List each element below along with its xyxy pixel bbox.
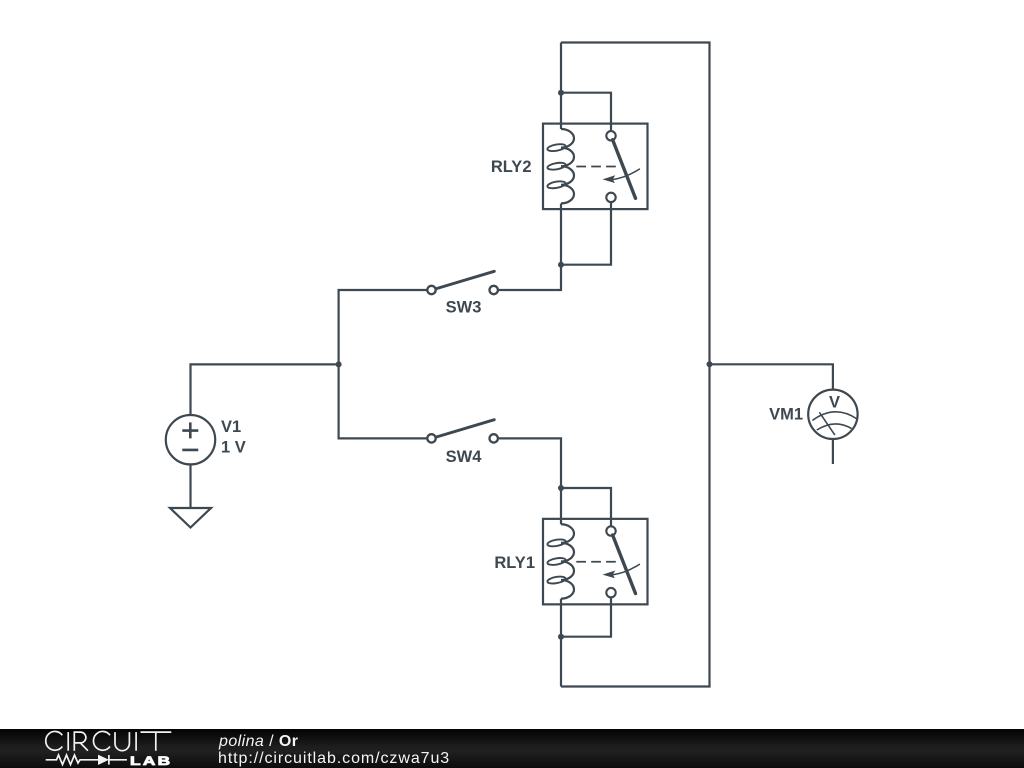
- svg-text:VM1: VM1: [769, 406, 803, 424]
- svg-text:LAB: LAB: [130, 756, 172, 768]
- svg-text:SW4: SW4: [446, 448, 483, 466]
- svg-text:1 V: 1 V: [221, 439, 246, 457]
- svg-text:RLY2: RLY2: [491, 158, 532, 176]
- svg-text:RLY1: RLY1: [494, 554, 535, 572]
- svg-text:V: V: [829, 394, 840, 412]
- svg-text:V1: V1: [221, 418, 241, 436]
- svg-text:SW3: SW3: [446, 299, 482, 317]
